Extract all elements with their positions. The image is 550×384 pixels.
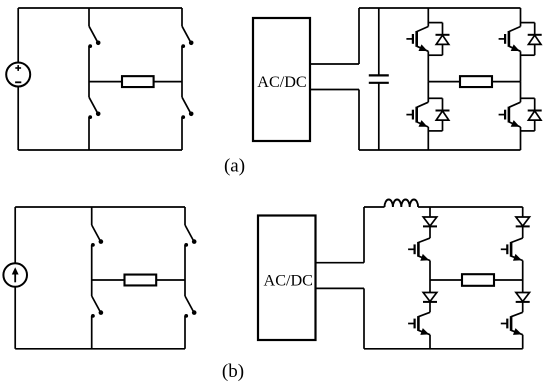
- wire: panel (b) inverter mid-rail left: [430, 279, 462, 281]
- label (b): [222, 361, 244, 382]
- wire: panel (b) left leg lower segment: [91, 316, 93, 349]
- wire: panel (a) left bridge mid-rail right: [154, 81, 182, 83]
- wire: panel (a) left leg bottom collector segment: [427, 82, 429, 103]
- wire: panel (b) left bridge mid-rail left: [92, 279, 125, 281]
- wire: Q2 diode branch bottom stub: [521, 44, 535, 55]
- transistor Q4 (IGBT, bottom-right of bridge a): [499, 102, 521, 127]
- resistor R3 (load of switch bridge b): [125, 275, 157, 286]
- diode D2 (antiparallel with Q2): [528, 35, 542, 45]
- wire: panel (a) left leg top collector segment: [427, 8, 429, 27]
- wire: panel (a) left leg middle segment: [88, 46, 90, 97]
- wire: panel (b) left leg IGBT-to-midrail: [429, 261, 431, 281]
- switch S5 (top-left, open): [91, 225, 103, 247]
- wire: panel (b) right leg IGBT-to-midrail: [522, 261, 524, 281]
- capacitor C1 (DC-link): [369, 75, 389, 82]
- wire: Q1 diode branch bottom stub: [428, 44, 442, 55]
- wire: panel (b) AC/DC lower output: [316, 287, 365, 289]
- wire: panel (b) source bottom lead: [14, 287, 16, 349]
- transistor Q8 (IGBT, bottom-right of bridge b): [501, 312, 523, 335]
- wire: Q2 diode branch top stub: [521, 23, 535, 35]
- wire: panel (a) right leg upper segment: [181, 8, 183, 26]
- wire: panel (a) inverter mid-rail left: [428, 81, 460, 83]
- wire: panel (b) right leg IGBT-to-bus lower: [522, 335, 524, 349]
- wire: panel (a) left circuit bottom bus: [18, 149, 182, 151]
- diode D3 (antiparallel with Q3): [436, 111, 450, 121]
- wire: Q1 diode branch top stub: [428, 23, 442, 35]
- wire: panel (b) inverter bottom bus: [364, 348, 523, 350]
- wire: panel (b) right leg upper segment: [184, 207, 186, 225]
- resistor R2 (load of IGBT bridge a): [460, 76, 492, 87]
- wire: panel (b) left leg midrail-to-diode: [429, 280, 431, 293]
- wire: panel (a) right leg top emitter segment: [520, 51, 522, 81]
- wire: panel (a) source bottom lead: [17, 87, 19, 151]
- wire: Q4 diode branch top stub: [521, 98, 535, 110]
- resistor R1 (load of switch bridge a): [122, 76, 154, 87]
- switch S1 (top-left, open): [88, 26, 100, 48]
- transistor Q3 (IGBT, bottom-left of bridge a): [406, 102, 428, 127]
- svg-text:(a): (a): [224, 156, 245, 177]
- switch S2 (top-right, open): [181, 26, 193, 48]
- wire: panel (a) right leg top collector segment: [520, 8, 522, 27]
- wire: panel (b) left leg upper segment: [91, 207, 93, 225]
- wire: panel (a) DC-link left rail lower: [358, 90, 360, 151]
- wire: panel (b) left bridge mid-rail right: [156, 279, 185, 281]
- diode D4 (antiparallel with Q4): [528, 111, 542, 121]
- wire: Q4 diode branch bottom stub: [521, 120, 535, 131]
- switch S4 (bottom-right, open): [181, 97, 193, 119]
- wire: panel (b) left leg middle segment: [91, 245, 93, 296]
- wire: panel (b) left leg IGBT-to-bus lower: [429, 335, 431, 349]
- wire: panel (a) inverter mid-rail right: [492, 81, 521, 83]
- wire: panel (a) inverter top bus: [359, 7, 521, 9]
- switch S8 (bottom-right, open): [184, 296, 196, 318]
- switch S3 (bottom-left, open): [88, 97, 100, 119]
- inductor L1 (DC-link choke): [385, 200, 419, 207]
- wire: panel (b) right leg diode-to-IGBT: [522, 226, 524, 238]
- wire: panel (b) right leg bus-to-diode: [522, 207, 524, 217]
- wire: panel (a) left leg top emitter segment: [427, 51, 429, 81]
- svg-text:(b): (b): [222, 361, 244, 382]
- diode D6 (series, top-right of bridge b): [516, 217, 530, 226]
- wire: panel (b) right leg diode-to-IGBT lower: [522, 302, 524, 312]
- wire: panel (b) AC/DC upper output: [316, 262, 365, 264]
- transistor Q2 (IGBT, top-right of bridge a): [499, 27, 521, 52]
- wire: panel (a) inverter bottom bus: [359, 149, 521, 151]
- wire: panel (a) right leg lower segment: [181, 117, 183, 150]
- wire: panel (a) capacitor bottom lead: [378, 83, 380, 150]
- wire: panel (a) DC-link left rail upper: [358, 8, 360, 64]
- wire: panel (a) right leg middle segment: [181, 46, 183, 97]
- wire: panel (b) source top lead: [14, 207, 16, 264]
- wire: panel (b) DC-link left rail lower: [363, 288, 365, 348]
- wire: panel (a) left leg bottom emitter segment: [427, 127, 429, 150]
- wire: panel (b) left circuit top bus: [15, 206, 185, 208]
- wire: panel (a) left leg upper segment: [88, 8, 90, 26]
- wire: panel (a) AC/DC lower output: [310, 89, 359, 91]
- switch S7 (bottom-left, open): [91, 296, 103, 318]
- wire: panel (a) right leg bottom emitter segment: [520, 127, 522, 150]
- voltage source V1 (DC source with + and -): [6, 63, 30, 87]
- wire: panel (b) DC-link left rail upper: [363, 207, 365, 263]
- transistor Q7 (IGBT, bottom-left of bridge b): [408, 312, 430, 335]
- label (a): [224, 156, 245, 177]
- diode D1 (antiparallel with Q1): [436, 35, 450, 45]
- wire: panel (b) left leg diode-to-IGBT: [429, 226, 431, 238]
- transistor Q5 (IGBT, top-left of bridge b): [408, 238, 430, 261]
- AC/DC converter block (panel b): [258, 216, 316, 341]
- wire: panel (a) right leg bottom collector segment: [520, 82, 522, 103]
- transistor Q6 (IGBT, top-right of bridge b): [501, 238, 523, 261]
- wire: panel (b) top bus right of inductor: [418, 206, 523, 208]
- AC/DC converter block (panel a): [253, 18, 310, 141]
- wire: panel (b) top bus left of inductor: [364, 206, 385, 208]
- wire: panel (b) inverter mid-rail right: [494, 279, 523, 281]
- wire: panel (a) AC/DC upper output: [310, 63, 359, 65]
- resistor R4 (load of IGBT bridge b): [462, 274, 494, 286]
- diode D8 (series, bottom-right of bridge b): [516, 293, 530, 302]
- wire: panel (a) capacitor top lead: [378, 8, 380, 75]
- wire: panel (b) left circuit bottom bus: [15, 348, 185, 350]
- wire: panel (a) left circuit top bus: [18, 7, 182, 9]
- diode D7 (series, bottom-left of bridge b): [423, 293, 437, 302]
- switch S6 (top-right, open): [184, 225, 196, 247]
- diode D5 (series, top-left of bridge b): [423, 217, 437, 226]
- wire: panel (b) right leg middle segment: [184, 245, 186, 296]
- transistor Q1 (IGBT, top-left of bridge a): [406, 27, 428, 52]
- wire: panel (b) left leg diode-to-IGBT lower: [429, 302, 431, 312]
- wire: panel (a) source top lead: [17, 8, 19, 63]
- wire: Q3 diode branch top stub: [428, 98, 442, 110]
- wire: Q3 diode branch bottom stub: [428, 120, 442, 131]
- current source I1 (DC source with up arrow): [3, 263, 27, 287]
- svg-text:AC/DC: AC/DC: [257, 73, 306, 91]
- svg-text:AC/DC: AC/DC: [264, 271, 313, 289]
- wire: panel (b) right leg lower segment: [184, 316, 186, 349]
- wire: panel (a) left bridge mid-rail left: [89, 81, 122, 83]
- wire: panel (a) left leg lower segment: [88, 117, 90, 150]
- wire: panel (b) right leg midrail-to-diode: [522, 280, 524, 293]
- wire: panel (b) left leg bus-to-diode: [429, 207, 431, 217]
